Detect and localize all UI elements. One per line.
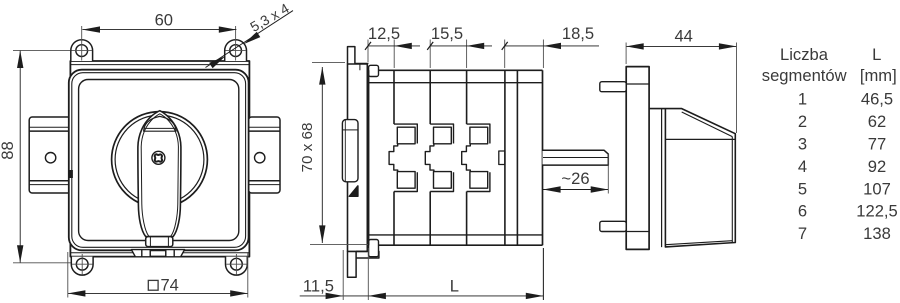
svg-text:74: 74 [161, 277, 179, 295]
arrowheads 60 [82, 26, 100, 32]
mounting ear top-right [225, 40, 247, 61]
DIN-rail tab right [249, 117, 280, 193]
svg-text:3: 3 [798, 135, 807, 154]
DIN clip [342, 120, 358, 197]
leader 5,3 x 4 [206, 11, 294, 69]
handle-view plate [626, 67, 649, 250]
rear section line 2 [516, 70, 518, 245]
svg-text:122,5: 122,5 [856, 202, 898, 221]
svg-text:5: 5 [798, 180, 807, 199]
svg-text:44: 44 [674, 26, 692, 45]
arrowheads 44 [626, 43, 644, 49]
FRONT VIEW (left): switch base plate [70, 61, 249, 257]
svg-text:18,5: 18,5 [562, 24, 594, 43]
svg-text:L: L [872, 45, 881, 64]
44 extension right [736, 43, 738, 134]
handle inner arch [144, 116, 176, 131]
DIMENSION 44 [626, 43, 736, 134]
front mounting plate [348, 64, 368, 251]
dim 74 line [68, 292, 248, 294]
arrowheads 70x68 [319, 67, 325, 85]
dim 12,5 line [368, 45, 420, 47]
screw phillips cross [152, 152, 165, 165]
dim 88 line [19, 50, 21, 262]
svg-text:12,5: 12,5 [368, 24, 400, 43]
cam segment joint 1 [389, 70, 417, 245]
svg-text:46,5: 46,5 [861, 90, 893, 109]
svg-text:70 x 68: 70 x 68 [299, 123, 316, 173]
handle collar lines [144, 127, 176, 129]
slash ticks [365, 42, 508, 50]
dim 60 line [82, 29, 236, 31]
knob skirt double line [661, 109, 663, 247]
arrowhead 12,5 [394, 43, 412, 49]
arrowhead 11,5 [326, 293, 344, 299]
svg-text:segmentów: segmentów [762, 66, 848, 85]
svg-text:7: 7 [798, 224, 807, 243]
arrowheads 74 [68, 290, 86, 296]
svg-text:62: 62 [868, 112, 886, 131]
svg-text:L: L [450, 277, 459, 296]
arrowheads 88 [17, 50, 23, 68]
top tab [600, 82, 626, 92]
knob slant inner line [682, 112, 733, 137]
plate bottom ear [348, 251, 357, 277]
front cover outer rounded square [69, 70, 249, 251]
svg-text:92: 92 [868, 157, 886, 176]
screw head [152, 151, 165, 164]
svg-text:60: 60 [155, 11, 173, 30]
bottom front block [369, 240, 379, 257]
body inner top line [369, 82, 543, 84]
front cover inner offset line [72, 73, 246, 248]
DIMENSIONS for front view [13, 30, 248, 298]
svg-text:5,3 x 4: 5,3 x 4 [247, 0, 292, 35]
svg-text:2: 2 [798, 112, 807, 131]
SIDE VIEW (right): handle view [600, 67, 736, 250]
TABLE: Liczba segmentow / L [mm] [762, 45, 898, 243]
dim 88 extension bottom [13, 262, 71, 264]
plate bottom step bar [356, 251, 379, 258]
dim 44 line [626, 45, 736, 47]
top dim extension lines [367, 40, 369, 63]
knob circle inner line [115, 115, 204, 204]
dim 74 extension right [247, 252, 249, 298]
plate top ear [348, 47, 355, 64]
70x68 extension bottom [310, 244, 368, 246]
bottom tab [600, 221, 626, 231]
dim ~26 line [543, 189, 608, 191]
dim 18,5 line [505, 45, 599, 47]
mounting ear bottom-right [226, 257, 248, 276]
drive shaft [543, 150, 609, 165]
cam segment joint 2 [425, 70, 453, 245]
cam segment joint 3 [462, 70, 490, 245]
plate line at top tab [626, 83, 649, 85]
knob circle [112, 112, 208, 208]
mounting ear bottom-left [71, 257, 93, 276]
dim 74 extension left [67, 252, 69, 298]
dim 15,5 line [430, 45, 492, 47]
latch clip on body left edge [69, 170, 73, 178]
svg-text:88: 88 [0, 141, 17, 159]
rear section mid tab [499, 151, 505, 165]
DIMENSIONS for side view [300, 40, 609, 301]
svg-text:107: 107 [863, 180, 891, 199]
svg-text:138: 138 [863, 224, 891, 243]
44 extension left [625, 43, 627, 65]
dim texts front view [0, 0, 292, 295]
~26 extension [607, 154, 609, 194]
L extension right [542, 248, 544, 300]
dim 70x68 line [321, 67, 323, 243]
SIDE VIEW (middle) [342, 47, 608, 278]
knob bottom inner line [665, 241, 732, 245]
arrowheads L [368, 293, 386, 299]
handle outer outline [138, 111, 181, 237]
dim texts side view [299, 24, 594, 296]
arrowhead 18,5 [543, 43, 561, 49]
body inner bottom line [369, 234, 543, 236]
ear hole crosshairs [72, 26, 247, 274]
switch body outline [369, 70, 543, 245]
svg-text:6: 6 [798, 202, 807, 221]
arrowhead 15,5 [467, 43, 485, 49]
dim 11,5 line [300, 295, 369, 297]
svg-text:Liczba: Liczba [780, 45, 829, 64]
knob face right inner line [731, 137, 733, 243]
dim 88 extension top [13, 49, 70, 51]
knob face top edge [665, 138, 735, 140]
cover inner panel [79, 80, 239, 241]
handle outer second line [141, 114, 178, 236]
svg-text:4: 4 [798, 157, 807, 176]
mounting ear top-left [71, 40, 93, 61]
plate line at bottom tab [626, 231, 649, 233]
11,5 extension lines [342, 250, 344, 300]
svg-text:[mm]: [mm] [860, 66, 897, 85]
dim L line [368, 295, 543, 297]
plate top step [355, 63, 369, 70]
rear section line 1 [504, 70, 506, 245]
svg-text:77: 77 [868, 135, 886, 154]
70x68 extension top [312, 62, 345, 64]
arrowheads ~26 [543, 186, 561, 192]
svg-text:1: 1 [798, 90, 807, 109]
square symbol of 74 [148, 280, 158, 290]
handle foot [146, 237, 173, 247]
svg-text:11,5: 11,5 [303, 277, 334, 296]
DIN-rail tab left [29, 117, 70, 193]
bottom latch assembly [131, 250, 184, 257]
top front block [369, 65, 379, 76]
knob outline [649, 109, 735, 247]
svg-text:15,5: 15,5 [431, 24, 463, 43]
svg-text:~26: ~26 [561, 169, 589, 188]
handle foot inner lines [149, 237, 151, 247]
